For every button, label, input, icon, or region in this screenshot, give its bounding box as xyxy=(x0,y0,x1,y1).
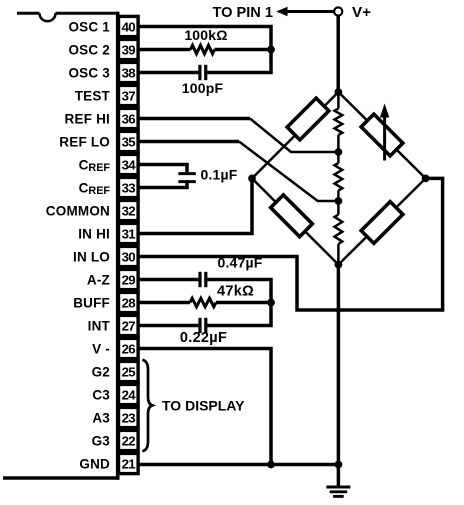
resistor R1 100k ohm zigzag xyxy=(191,45,215,53)
svg-text:22: 22 xyxy=(122,433,136,448)
pin 32 box and label COMMON xyxy=(46,200,138,220)
pin 39 box and label OSC 2 xyxy=(68,39,138,59)
svg-text:REF LO: REF LO xyxy=(59,134,110,149)
wire pin 38 (OSC 3) to capacitor C1 xyxy=(138,71,198,75)
svg-text:REF HI: REF HI xyxy=(65,111,110,126)
strain gauge resistor, bridge top-left arm xyxy=(287,98,329,140)
wire C3 to integrator bus xyxy=(207,280,271,326)
pin 29 box and label A-Z xyxy=(87,269,138,289)
pin 22 box and label G3 xyxy=(92,430,139,450)
pin 38 box and label OSC 3 xyxy=(68,62,138,82)
svg-text:GND: GND xyxy=(79,456,110,471)
wire pin 29 (A-Z) to capacitor C3 xyxy=(138,278,198,282)
junction integrator bus xyxy=(267,299,275,307)
junction bridge left node xyxy=(248,175,256,183)
svg-text:37: 37 xyxy=(122,88,136,103)
svg-text:23: 23 xyxy=(122,410,136,425)
svg-text:33: 33 xyxy=(122,180,136,195)
svg-text:31: 31 xyxy=(122,226,136,241)
pin 33 box and label CREF xyxy=(79,177,138,197)
svg-text:25: 25 xyxy=(122,364,136,379)
bridge divider: top segment and resistor xyxy=(337,92,340,109)
svg-text:28: 28 xyxy=(122,295,136,310)
wire bridge arm top-left (top node to left node) xyxy=(252,92,338,178)
pin 37 box and label TEST xyxy=(75,85,138,105)
svg-text:TEST: TEST xyxy=(75,88,111,103)
svg-text:29: 29 xyxy=(122,272,136,287)
svg-text:100kΩ: 100kΩ xyxy=(184,27,227,43)
svg-text:100pF: 100pF xyxy=(182,80,224,96)
junction oscillator node (pins 38/39/40) xyxy=(267,46,275,54)
svg-text:IN LO: IN LO xyxy=(73,249,110,264)
svg-text:CREF: CREF xyxy=(79,180,111,197)
svg-text:47kΩ: 47kΩ xyxy=(217,284,254,300)
svg-text:COMMON: COMMON xyxy=(46,203,110,218)
svg-text:V -: V - xyxy=(92,341,110,356)
svg-text:A-Z: A-Z xyxy=(87,272,110,287)
junction bridge right node xyxy=(422,175,430,183)
variable-gauge arrow through top-right arm xyxy=(380,104,389,161)
svg-text:39: 39 xyxy=(122,42,136,57)
pin 26 box and label V - xyxy=(92,338,138,358)
wire pin 30 (IN LO) around to bridge right node xyxy=(138,178,442,310)
svg-text:38: 38 xyxy=(122,65,136,80)
strain gauge resistor, bridge bottom-right arm xyxy=(361,202,403,244)
pin 24 box and label C3 xyxy=(92,384,138,404)
svg-text:30: 30 xyxy=(122,249,136,264)
pin 23 box and label A3 xyxy=(92,407,138,427)
svg-text:0.22µF: 0.22µF xyxy=(180,330,227,346)
svg-text:IN HI: IN HI xyxy=(78,226,110,241)
svg-text:OSC 1: OSC 1 xyxy=(68,19,110,34)
wire pin 40 (OSC 1) to oscillator node xyxy=(138,27,271,73)
svg-text:TO DISPLAY: TO DISPLAY xyxy=(162,398,245,414)
svg-text:36: 36 xyxy=(122,111,136,126)
svg-text:0.47µF: 0.47µF xyxy=(217,254,262,270)
wire V+ rail down to bridge top node xyxy=(336,16,340,92)
wire pin 27 (INT) to capacitor C4 xyxy=(138,324,198,328)
pin 21 box and label GND xyxy=(79,453,138,473)
pin 40 box and label OSC 1 xyxy=(68,16,138,36)
svg-text:CREF: CREF xyxy=(79,157,111,174)
junction ground node xyxy=(335,461,343,469)
wire R2 to integrator bus xyxy=(216,301,271,305)
pin 34 box and label CREF xyxy=(79,154,138,174)
capacitor C2 0.1uF plates xyxy=(178,174,195,182)
svg-text:G3: G3 xyxy=(92,433,111,448)
resistor R2 47k ohm zigzag xyxy=(190,298,216,306)
svg-text:OSC 3: OSC 3 xyxy=(68,65,110,80)
wire pin 26 (V-) down to ground rail xyxy=(138,349,271,465)
strain gauge resistor, bridge bottom-left arm xyxy=(271,195,313,237)
svg-text:TO PIN 1: TO PIN 1 xyxy=(212,5,273,21)
wire pin 36 (REF HI) to divider upper tap xyxy=(138,117,250,121)
pin 31 box and label IN HI xyxy=(78,223,138,243)
wire pin 31 (IN HI) to bridge left node xyxy=(138,178,252,233)
wire R1 right side to oscillator node xyxy=(215,48,272,52)
capacitor C4 0.22uF plates xyxy=(200,318,206,333)
wire pin 39 (OSC 2) to resistor R1 xyxy=(138,48,190,52)
ground symbol xyxy=(326,487,350,496)
wire pin 34 (CREF+) to capacitor C2 xyxy=(138,165,187,173)
pin 35 box and label REF LO xyxy=(59,131,138,151)
pin 36 box and label REF HI xyxy=(65,108,139,128)
capacitor C1 100pF plates xyxy=(200,65,206,80)
svg-text:A3: A3 xyxy=(92,410,110,425)
junction bridge bottom node xyxy=(335,261,343,269)
junction divider lower tap xyxy=(335,197,343,205)
svg-text:C3: C3 xyxy=(92,387,110,402)
svg-text:24: 24 xyxy=(122,387,137,402)
wire bridge bottom node down to ground xyxy=(337,265,341,487)
junction divider upper tap xyxy=(335,148,343,156)
V+ power terminal (open circle) xyxy=(334,7,342,15)
junction bridge top node xyxy=(335,88,343,96)
svg-text:OSC 2: OSC 2 xyxy=(68,42,110,57)
wire pin 28 (BUFF) to resistor R2 xyxy=(138,301,190,305)
brace grouping display pins xyxy=(142,360,152,451)
svg-text:G2: G2 xyxy=(92,364,110,379)
TO PIN 1 arrow and label xyxy=(212,5,333,21)
bridge divider: middle resistor xyxy=(335,163,343,191)
capacitor C3 0.47uF plates xyxy=(200,272,206,287)
svg-text:27: 27 xyxy=(122,318,136,333)
svg-text:34: 34 xyxy=(122,157,137,172)
svg-text:32: 32 xyxy=(122,203,136,218)
wire bridge arm bottom-right (bottom node to right node) xyxy=(338,178,425,264)
wire bridge arm top-right (top node to right node) xyxy=(338,92,425,178)
op-amp/ADC IC body (pins 21-40 side) xyxy=(3,12,120,480)
pin 27 box and label INT xyxy=(88,315,138,335)
svg-text:BUFF: BUFF xyxy=(73,295,110,310)
svg-text:21: 21 xyxy=(122,456,136,471)
svg-text:V+: V+ xyxy=(352,4,371,21)
svg-text:26: 26 xyxy=(122,341,136,356)
strain gauge resistor (variable), bridge top-right arm xyxy=(361,114,403,156)
wire bridge arm bottom-left (left node to bottom node) xyxy=(252,178,338,264)
svg-text:0.1µF: 0.1µF xyxy=(200,166,237,182)
wire pin 35 (REF LO) to divider lower tap xyxy=(138,140,239,144)
svg-text:35: 35 xyxy=(122,134,136,149)
svg-text:INT: INT xyxy=(88,318,111,333)
bridge divider: bottom resistor xyxy=(335,215,343,245)
pin 30 box and label IN LO xyxy=(73,246,138,266)
wire pin 33 (CREF-) to capacitor C2 xyxy=(138,183,187,188)
svg-text:40: 40 xyxy=(122,19,136,34)
wire pin 21 (GND) to ground xyxy=(138,463,338,467)
pin 28 box and label BUFF xyxy=(73,292,138,312)
junction V- to ground rail xyxy=(267,461,275,469)
pin 25 box and label G2 xyxy=(92,361,139,381)
